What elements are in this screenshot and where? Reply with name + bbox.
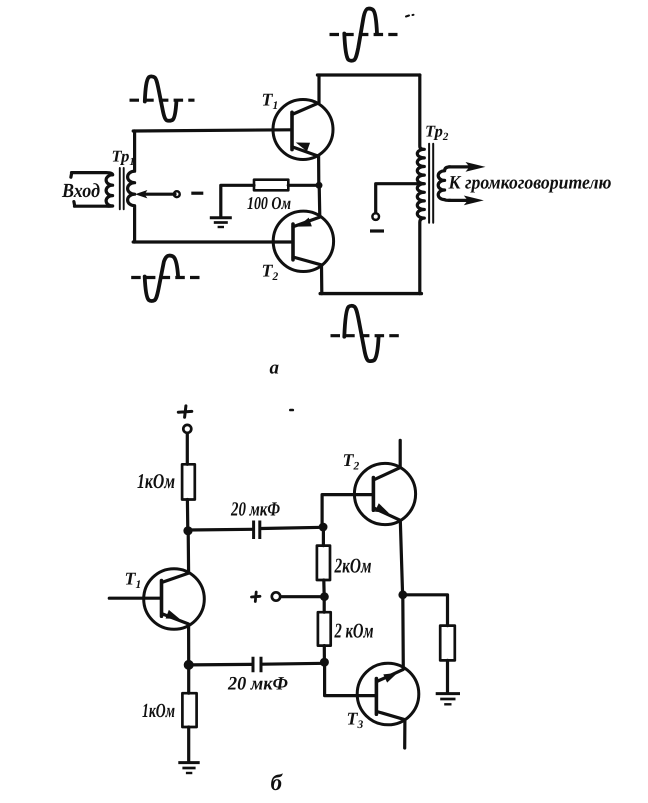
transistor T2 circle	[273, 211, 333, 271]
transistor T1b emitter line	[162, 614, 189, 665]
resistor 100 Om body	[254, 180, 288, 191]
center-tap open circle terminal	[174, 191, 180, 197]
resistor 1kOm top body	[182, 464, 195, 499]
transformer Tp1 primary winding	[106, 175, 113, 206]
transistor T2 emitter arrow	[296, 218, 312, 231]
transistor T1b base bar	[160, 581, 164, 617]
mid open circle terminal	[272, 592, 280, 600]
svg-text:2кОм: 2кОм	[334, 554, 372, 578]
plus terminal sign	[178, 406, 192, 417]
ground symbol (bottom left)	[178, 761, 199, 764]
transistor T2 collector line	[293, 257, 322, 294]
svg-text:1кОм: 1кОм	[137, 469, 175, 493]
output wire bottom with arrow	[449, 199, 468, 202]
speck near top-right	[406, 15, 414, 17]
transistor T2b emitter arrow	[375, 503, 391, 517]
wire top rail	[317, 73, 419, 76]
transistor T1 circle	[273, 100, 333, 160]
wire resistor to node A	[186, 500, 190, 531]
svg-text:Т2: Т2	[262, 261, 279, 284]
transistor T1b base lead	[109, 597, 160, 600]
wire node E down to 1kOm bottom	[187, 665, 190, 693]
svg-text:20 мкФ: 20 мкФ	[227, 674, 288, 695]
sine symbol top-middle baseline (dashed)	[330, 33, 398, 36]
svg-text:К громкоговорителю: К громкоговорителю	[448, 173, 612, 194]
node C dot	[320, 592, 329, 601]
Tp2 tap open circle terminal	[372, 213, 379, 220]
svg-text:Т2: Т2	[343, 450, 360, 473]
transformer Tp2 primary winding with right rail	[417, 75, 424, 294]
transformer Tp2 core	[429, 144, 433, 223]
svg-text:Вход: Вход	[61, 180, 100, 202]
transistor T2b collector line	[374, 440, 400, 480]
node D dot	[320, 658, 329, 667]
sine symbol bottom-left baseline (dashed)	[131, 276, 199, 279]
plus terminal open circle	[183, 425, 191, 433]
wire resistor right to ground	[446, 660, 449, 692]
transistor T2 emitter line	[293, 185, 320, 227]
capacitor 20mkF bottom plates	[253, 657, 261, 672]
minus dash under Tp2 tap	[370, 229, 384, 232]
resistor 100 Om right lead	[288, 184, 316, 187]
junction dot emitters	[316, 182, 323, 189]
input lead loop hook top	[69, 173, 73, 177]
output wire top with arrow	[449, 165, 470, 168]
resistor 1kOm bottom body	[182, 693, 196, 727]
center-tap arrow wire of Tp1	[141, 193, 175, 196]
transformer Tp2 secondary winding	[438, 167, 450, 201]
transistor T1b circle	[144, 569, 205, 630]
resistor 2kOm upper body	[317, 546, 330, 580]
plus mid sign	[252, 592, 261, 602]
resistor 2kOm lower body	[318, 612, 331, 645]
svg-text:Тр2: Тр2	[425, 122, 449, 144]
transformer Tp1 secondary winding on left rail	[128, 131, 135, 242]
wire 2kOm to node C	[322, 580, 326, 597]
transformer Tp1 core	[120, 168, 124, 209]
wire capacitor bottom to node E	[190, 663, 252, 667]
wire bottom rail	[320, 292, 421, 295]
svg-text:а: а	[270, 358, 280, 379]
transistor T1b collector line	[162, 531, 189, 583]
svg-text:2 кОм: 2 кОм	[334, 619, 374, 643]
node F dot	[398, 590, 407, 599]
transistor T1 base bar	[290, 112, 294, 149]
Tp2 center-tap wire	[376, 184, 423, 213]
input lead loop (Вход) bottom lead	[75, 204, 113, 207]
transistor T1 emitter arrow	[294, 138, 310, 151]
transistor T1 emitter line	[292, 147, 319, 186]
wire node D down to T3 base	[325, 662, 375, 695]
svg-text:100 Ом: 100 Ом	[247, 193, 291, 213]
resistor 100 Om left lead	[221, 185, 254, 216]
transistor T2b base bar	[372, 478, 376, 511]
transistor T3 base bar	[375, 679, 379, 715]
svg-text:б: б	[271, 770, 284, 795]
input lead loop (Вход) top lead	[72, 173, 113, 175]
svg-text:Т1: Т1	[262, 90, 279, 113]
wire node F right to resistor	[403, 595, 448, 626]
capacitor 20mkF top plates	[254, 521, 260, 540]
svg-text:Т1: Т1	[125, 569, 142, 592]
sine symbol bottom-left wave	[145, 256, 178, 301]
wire node A to capacitor top	[188, 528, 252, 532]
sine symbol top-left wave	[145, 76, 177, 120]
transistor T1b emitter arrow	[166, 610, 182, 623]
transistor T1 collector line	[292, 75, 319, 115]
resistor right body	[440, 626, 455, 661]
transistor T2b emitter line	[374, 508, 403, 595]
transistor T3 emitter line	[377, 595, 404, 682]
wire 2kOm lower to node D	[323, 646, 326, 663]
wire capacitor top to node B	[261, 527, 323, 528]
transistor T2b circle	[354, 463, 415, 524]
wire node C to 2kOm lower	[323, 597, 326, 613]
minus dash near Tp1 tap	[191, 192, 203, 195]
sine symbol top-middle wave	[344, 9, 377, 61]
transistor T3 emitter arrow	[383, 669, 399, 683]
transistor T3 collector line	[377, 712, 405, 749]
node E dot	[184, 660, 194, 670]
sine symbol bottom-middle baseline (dashed)	[331, 334, 404, 337]
svg-text:20 мкФ: 20 мкФ	[230, 499, 280, 521]
wire mid terminal to node C	[281, 595, 321, 598]
node A dot	[183, 526, 192, 535]
wire plus to resistor	[186, 433, 189, 464]
transistor T3 circle	[357, 663, 419, 725]
wire 1kOm bottom to ground	[187, 727, 190, 761]
svg-text:Т3: Т3	[347, 709, 364, 732]
node B dot	[319, 523, 328, 532]
svg-text:1кОм: 1кОм	[142, 700, 175, 722]
input lead loop hook bottom	[72, 202, 76, 206]
svg-text:Тр1: Тр1	[112, 147, 135, 169]
wire node B down to 2kOm	[322, 527, 325, 546]
wire node D left to capacitor bottom	[263, 662, 324, 666]
sine symbol bottom-middle wave	[344, 306, 378, 361]
wire node B up to T2 base	[322, 495, 371, 527]
ground symbol (bottom right)	[436, 692, 460, 695]
transistor T2 base bar	[291, 224, 295, 260]
wire top input (Tp1 secondary top to T1 base)	[133, 130, 290, 131]
wire bottom input (Tp1 secondary bottom to T2 base)	[133, 240, 291, 243]
speck above circuit b	[290, 409, 293, 412]
ground symbol (top circuit)	[210, 216, 232, 219]
sine symbol top-left baseline (dashed)	[130, 99, 195, 102]
center-tap arrowhead	[135, 190, 148, 198]
